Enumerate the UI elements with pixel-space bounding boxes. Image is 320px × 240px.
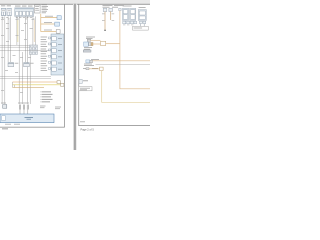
svg-text:Page 2 of 5: Page 2 of 5 — [81, 128, 95, 132]
